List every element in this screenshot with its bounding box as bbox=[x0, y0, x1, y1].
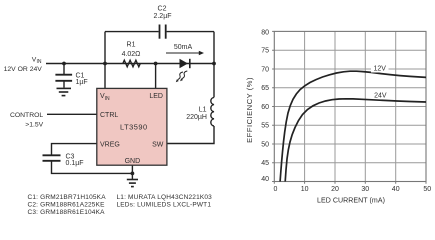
svg-text:CONTROL: CONTROL bbox=[10, 112, 43, 119]
label 12V bbox=[371, 64, 389, 73]
svg-text:2.2µF: 2.2µF bbox=[153, 13, 171, 20]
svg-text:75: 75 bbox=[261, 48, 269, 55]
svg-text:C1: GRM21BR71H105KA: C1: GRM21BR71H105KA bbox=[28, 194, 107, 201]
svg-text:R1: R1 bbox=[127, 42, 136, 49]
svg-text:70: 70 bbox=[261, 66, 269, 73]
grid bbox=[274, 31, 426, 181]
svg-text:GND: GND bbox=[125, 158, 141, 165]
svg-text:55: 55 bbox=[261, 123, 269, 130]
svg-text:CTRL: CTRL bbox=[100, 112, 118, 119]
inductor L1 bbox=[211, 97, 214, 126]
wire C3 bottom to GND node bbox=[52, 162, 133, 174]
node LED cathode / L1 rail junction bbox=[212, 62, 216, 66]
svg-text:>1.5V: >1.5V bbox=[25, 121, 43, 128]
svg-text:45: 45 bbox=[261, 160, 269, 167]
svg-text:60: 60 bbox=[261, 104, 269, 111]
node VIN pin junction bbox=[103, 62, 107, 66]
y axis tick labels bbox=[261, 30, 269, 183]
wire main rail VIN to LED cathode node bbox=[46, 63, 214, 65]
svg-text:12V: 12V bbox=[373, 65, 386, 72]
LED light emission symbol bbox=[178, 71, 188, 80]
IC U1 LT3590 bbox=[97, 88, 167, 165]
svg-text:40: 40 bbox=[392, 186, 400, 193]
curve 24V bbox=[285, 99, 426, 182]
svg-text:C2: GRM188R61A225KE: C2: GRM188R61A225KE bbox=[28, 202, 106, 209]
svg-text:1µF: 1µF bbox=[76, 79, 88, 86]
wire right rail to L1 bbox=[167, 32, 214, 144]
capacitor C2 bbox=[160, 25, 166, 39]
svg-text:12V OR 24V: 12V OR 24V bbox=[4, 66, 43, 73]
wire LED pin drop bbox=[155, 64, 157, 89]
svg-text:65: 65 bbox=[261, 85, 269, 92]
capacitor C1 bbox=[55, 75, 72, 81]
svg-text:LED CURRENT (mA): LED CURRENT (mA) bbox=[317, 198, 385, 205]
svg-text:IN: IN bbox=[37, 59, 42, 65]
axis ticks bbox=[272, 31, 426, 183]
svg-text:20: 20 bbox=[331, 186, 339, 193]
wire VREG to C3 bbox=[52, 144, 97, 155]
svg-text:50mA: 50mA bbox=[174, 44, 193, 51]
svg-text:0.1µF: 0.1µF bbox=[66, 160, 84, 167]
ground (GND pin) bbox=[127, 180, 138, 187]
x axis tick labels bbox=[274, 186, 432, 193]
svg-text:LED: LED bbox=[149, 93, 163, 100]
svg-text:30: 30 bbox=[361, 186, 369, 193]
resistor R1 bbox=[123, 60, 141, 67]
wire VIN pin drop (top rail to IC) bbox=[104, 32, 106, 89]
wire C1 leads bbox=[63, 64, 65, 88]
frame bbox=[274, 31, 426, 181]
svg-text:80: 80 bbox=[261, 30, 269, 37]
svg-text:LEDs: LUMILEDS LXCL-PWT1: LEDs: LUMILEDS LXCL-PWT1 bbox=[117, 202, 212, 209]
node C1 junction bbox=[62, 62, 66, 66]
svg-text:EFFICIENCY (%): EFFICIENCY (%) bbox=[245, 77, 254, 143]
svg-text:VREG: VREG bbox=[100, 141, 120, 148]
svg-text:L1: L1 bbox=[199, 106, 207, 113]
ground (C1) bbox=[57, 88, 72, 95]
svg-text:10: 10 bbox=[301, 186, 309, 193]
svg-text:4.02Ω: 4.02Ω bbox=[122, 51, 141, 58]
svg-text:SW: SW bbox=[152, 141, 164, 148]
curve 12V bbox=[280, 71, 426, 181]
svg-text:24V: 24V bbox=[374, 93, 387, 100]
svg-text:L1: MURATA LQH43CN221K03: L1: MURATA LQH43CN221K03 bbox=[117, 194, 213, 201]
svg-text:50: 50 bbox=[423, 186, 431, 193]
svg-text:50: 50 bbox=[261, 141, 269, 148]
svg-text:C3: GRM188R61E104KA: C3: GRM188R61E104KA bbox=[28, 209, 106, 216]
svg-text:LT3590: LT3590 bbox=[120, 123, 148, 132]
svg-text:40: 40 bbox=[261, 176, 269, 183]
wire CONTROL to CTRL pin bbox=[47, 113, 97, 115]
svg-text:C2: C2 bbox=[158, 5, 167, 12]
wire top C2 feedback rail bbox=[105, 31, 214, 33]
svg-text:220µH: 220µH bbox=[186, 114, 207, 121]
50mA current arrow bbox=[166, 52, 200, 54]
capacitor C3 bbox=[43, 155, 61, 161]
BOM notes bbox=[28, 194, 213, 216]
LED D1 bbox=[180, 59, 188, 68]
node LED pin junction bbox=[154, 62, 158, 66]
svg-text:0: 0 bbox=[274, 186, 278, 193]
node GND junction bbox=[131, 172, 135, 176]
wire GND pin to ground bbox=[131, 165, 133, 179]
